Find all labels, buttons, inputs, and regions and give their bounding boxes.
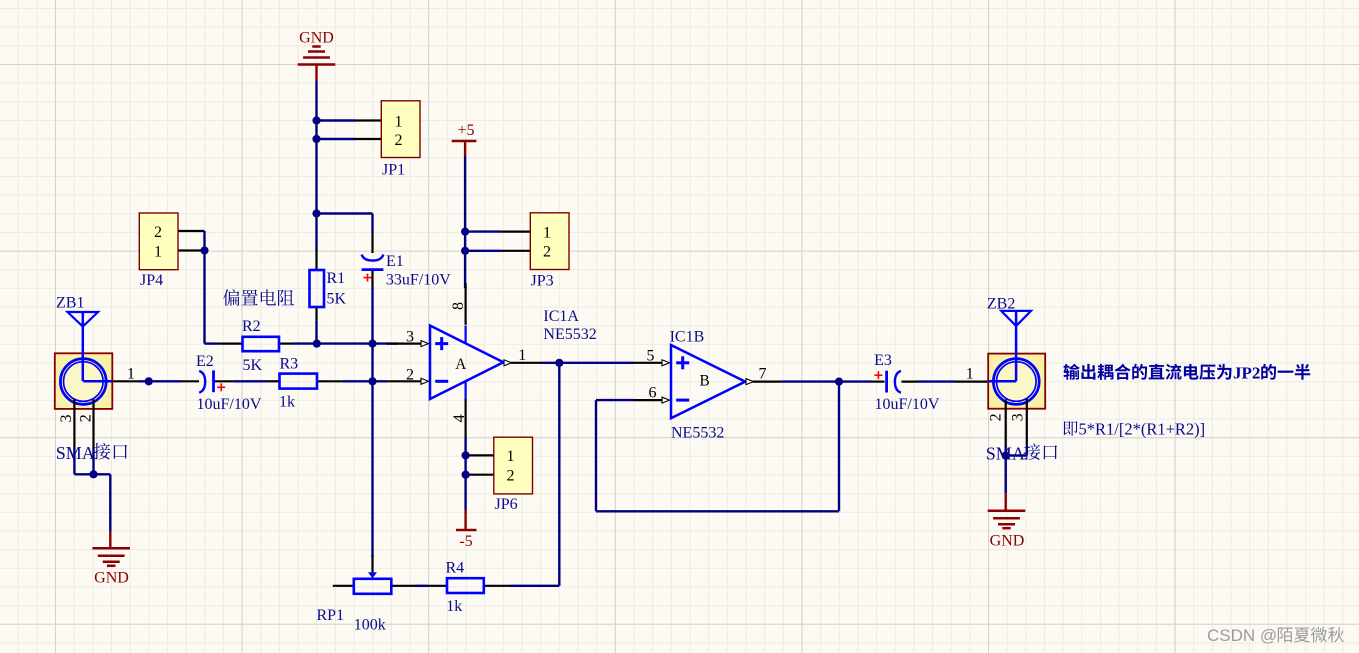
svg-text:10uF/10V: 10uF/10V — [197, 396, 262, 413]
svg-text:2: 2 — [507, 468, 515, 485]
svg-text:2: 2 — [988, 413, 1005, 421]
svg-text:JP3: JP3 — [531, 273, 554, 290]
svg-text:1: 1 — [543, 224, 551, 241]
svg-text:SMA: SMA — [986, 444, 1025, 464]
svg-text:B: B — [700, 372, 710, 389]
svg-text:10uF/10V: 10uF/10V — [875, 396, 940, 413]
svg-text:RP1: RP1 — [317, 607, 345, 624]
svg-text:4: 4 — [451, 414, 468, 422]
svg-text:2: 2 — [406, 366, 414, 383]
svg-text:JP2: JP2 — [1233, 363, 1260, 382]
svg-text:5K: 5K — [243, 357, 263, 374]
svg-text:2: 2 — [77, 414, 94, 422]
svg-text:E1: E1 — [386, 253, 404, 270]
svg-text:JP1: JP1 — [382, 162, 405, 179]
svg-text:E2: E2 — [196, 353, 214, 370]
svg-text:5K: 5K — [327, 291, 347, 308]
svg-text:NE5532: NE5532 — [671, 425, 724, 442]
svg-text:A: A — [455, 356, 466, 373]
svg-text:2: 2 — [543, 244, 551, 261]
svg-text:CSDN @: CSDN @ — [1207, 626, 1277, 645]
svg-text:R2: R2 — [242, 318, 261, 335]
svg-text:1: 1 — [518, 347, 526, 364]
svg-text:8: 8 — [450, 302, 467, 310]
svg-text:1: 1 — [966, 366, 974, 383]
svg-text:+5: +5 — [457, 122, 474, 139]
svg-text:JP6: JP6 — [495, 496, 518, 513]
svg-text:2: 2 — [395, 132, 403, 149]
svg-text:GND: GND — [990, 533, 1025, 550]
svg-text:NE5532: NE5532 — [543, 326, 596, 343]
svg-text:33uF/10V: 33uF/10V — [386, 272, 451, 289]
svg-text:R4: R4 — [446, 560, 465, 577]
svg-text:1: 1 — [395, 113, 403, 130]
svg-text:ZB1: ZB1 — [56, 295, 84, 312]
svg-text:1: 1 — [127, 366, 135, 383]
svg-text:R1: R1 — [327, 270, 346, 287]
svg-text:7: 7 — [759, 366, 767, 383]
svg-text:-5: -5 — [459, 533, 472, 550]
svg-text:GND: GND — [299, 30, 334, 47]
svg-text:JP4: JP4 — [140, 272, 163, 289]
svg-text:3: 3 — [1010, 413, 1027, 421]
svg-text:1: 1 — [154, 243, 162, 260]
svg-text:1k: 1k — [446, 598, 462, 615]
svg-text:R3: R3 — [280, 356, 299, 373]
svg-text:100k: 100k — [354, 617, 386, 634]
svg-text:E3: E3 — [874, 352, 892, 369]
svg-text:1k: 1k — [279, 393, 295, 410]
svg-text:5: 5 — [647, 347, 655, 364]
svg-text:GND: GND — [94, 570, 129, 587]
svg-text:1: 1 — [507, 448, 515, 465]
svg-text:IC1B: IC1B — [670, 329, 705, 346]
svg-text:3: 3 — [58, 415, 75, 423]
svg-text:ZB2: ZB2 — [987, 296, 1015, 313]
svg-text:IC1A: IC1A — [543, 308, 579, 325]
svg-text:6: 6 — [649, 385, 657, 402]
svg-text:3: 3 — [406, 328, 414, 345]
svg-text:2: 2 — [154, 224, 162, 241]
svg-text:SMA: SMA — [56, 443, 95, 463]
svg-text:5*R1/[2*(R1+R2)]: 5*R1/[2*(R1+R2)] — [1079, 420, 1206, 439]
